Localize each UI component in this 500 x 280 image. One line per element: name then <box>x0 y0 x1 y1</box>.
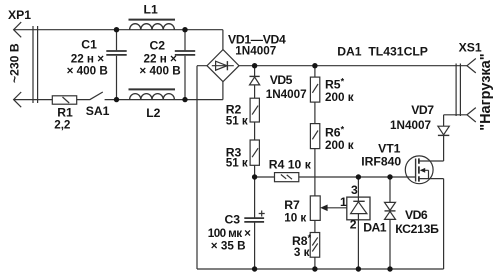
svg-text:22 н ×: 22 н × <box>144 52 178 65</box>
svg-text:R4 10 к: R4 10 к <box>269 157 312 171</box>
svg-text:3 к: 3 к <box>294 246 310 259</box>
svg-text:IRF840: IRF840 <box>361 155 401 169</box>
svg-text:VD5: VD5 <box>270 73 293 87</box>
svg-text:C2: C2 <box>150 39 166 53</box>
svg-text:1N4007: 1N4007 <box>390 119 431 132</box>
svg-text:× 400 В: × 400 В <box>67 65 108 78</box>
svg-text:10 к: 10 к <box>284 212 306 225</box>
svg-text:L2: L2 <box>146 106 160 120</box>
svg-text:200 к: 200 к <box>325 91 354 104</box>
svg-text:2,2: 2,2 <box>54 119 71 132</box>
svg-text:C1: C1 <box>81 37 97 51</box>
svg-text:R6*: R6* <box>325 125 345 140</box>
svg-text:51 к: 51 к <box>226 156 248 169</box>
svg-text:× 35 В: × 35 В <box>211 239 246 252</box>
svg-text:1N4007: 1N4007 <box>235 44 276 57</box>
svg-text:3: 3 <box>351 183 358 197</box>
svg-text:2: 2 <box>350 218 357 232</box>
svg-text:XS1: XS1 <box>459 40 482 54</box>
svg-text:VD7: VD7 <box>411 103 434 117</box>
svg-text:VD6: VD6 <box>405 208 428 222</box>
svg-text:DA1: DA1 <box>363 221 387 235</box>
svg-text:1: 1 <box>340 195 347 209</box>
svg-text:C3: C3 <box>225 213 241 227</box>
svg-text:КС213Б: КС213Б <box>395 222 439 236</box>
svg-text:100 мк ×: 100 мк × <box>208 227 251 240</box>
svg-text:"Нагрузка": "Нагрузка" <box>478 53 494 130</box>
svg-text:R7: R7 <box>284 198 300 212</box>
svg-text:VT1: VT1 <box>378 142 401 156</box>
svg-text:1N4007: 1N4007 <box>266 88 307 101</box>
svg-text:200 к: 200 к <box>325 139 354 152</box>
svg-text:DA1 TL431CLP: DA1 TL431CLP <box>337 45 428 59</box>
svg-text:R1: R1 <box>57 106 73 120</box>
svg-text:SA1: SA1 <box>86 104 110 118</box>
svg-text:~230 В: ~230 В <box>7 43 21 83</box>
svg-text:22 н ×: 22 н × <box>71 52 105 65</box>
svg-text:XP1: XP1 <box>8 8 31 22</box>
svg-text:51 к: 51 к <box>226 114 248 127</box>
svg-text:L1: L1 <box>144 3 158 17</box>
svg-text:× 400 В: × 400 В <box>139 65 180 78</box>
svg-text:R5*: R5* <box>325 76 345 91</box>
